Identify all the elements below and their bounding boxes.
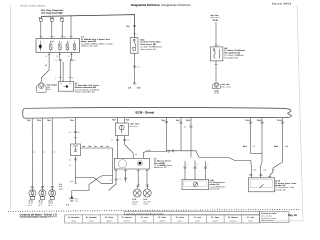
footer info box xyxy=(260,212,290,223)
wires into box1 xyxy=(185,161,206,180)
svg-text:T6/1: T6/1 xyxy=(27,119,31,122)
S/16 oil pressure switch box xyxy=(130,38,138,54)
svg-text:1.0: 1.0 xyxy=(110,179,112,182)
svg-text:1.0: 1.0 xyxy=(111,139,113,142)
wire drop from bus to module A-2 xyxy=(70,16,72,39)
svg-text:T6b: T6b xyxy=(88,145,91,148)
connector G-8 xyxy=(39,16,43,21)
svg-text:T6/2: T6/2 xyxy=(37,119,41,122)
svg-text:2.0: 2.0 xyxy=(69,164,71,167)
svg-text:1: 1 xyxy=(187,163,188,166)
svg-text:cil. 2: cil. 2 xyxy=(38,204,42,207)
wire module to G6 pump left xyxy=(59,52,62,81)
svg-text:G 8: G 8 xyxy=(128,87,131,90)
svg-text:Sist. Diag. Diagnostic: Sist. Diag. Diagnostic xyxy=(41,9,64,12)
box1 pressure sensor xyxy=(182,180,209,190)
valve box side labels xyxy=(130,122,139,127)
ground text xyxy=(59,182,79,207)
wires valve box to pump box xyxy=(116,136,118,159)
long horizontal wire pump run xyxy=(167,151,252,178)
vertical from bus to lower run xyxy=(101,148,113,183)
glow plug 1 xyxy=(29,190,36,200)
svg-text:W 8: W 8 xyxy=(137,87,140,90)
labels above bus xyxy=(82,145,109,148)
band pin wire injector 3 xyxy=(51,118,53,190)
svg-text:Mum Pum: Mum Pum xyxy=(130,125,138,128)
svg-text:2: 2 xyxy=(72,77,73,80)
svg-text:(30-12): (30-12) xyxy=(160,164,166,167)
pump assembly box xyxy=(114,158,149,169)
valve N18 labels xyxy=(143,198,151,205)
solenoid valve N18 xyxy=(143,189,151,197)
module A-2 text block xyxy=(81,36,113,48)
wire module to G6 pump right xyxy=(70,52,71,81)
footer table header xyxy=(125,212,260,215)
svg-text:13: 13 xyxy=(64,36,66,39)
svg-text:colector 007: colector 007 xyxy=(210,188,220,191)
ticks below B1 xyxy=(74,159,77,160)
band pin wire x181 xyxy=(180,118,182,151)
svg-text:1: 1 xyxy=(42,36,43,39)
svg-text:1.0: 1.0 xyxy=(119,178,121,181)
module A-2 box xyxy=(36,39,80,53)
wire 30 to S/6 xyxy=(215,22,217,47)
svg-text:1.0: 1.0 xyxy=(135,153,137,156)
wire G6 pump mid xyxy=(62,62,64,82)
injector ticks above xyxy=(31,187,54,188)
svg-text:0.5: 0.5 xyxy=(184,126,186,129)
svg-text:(Sist. Diagnóstico) 028: (Sist. Diagnóstico) 028 xyxy=(41,12,63,15)
svg-text:12: 12 xyxy=(78,131,80,134)
svg-text:T6/10: T6/10 xyxy=(186,119,191,122)
svg-text:2.0: 2.0 xyxy=(75,182,78,185)
svg-text:T6d: T6d xyxy=(100,145,103,148)
module internal tiny labels xyxy=(43,41,70,44)
injector wire gauge labels xyxy=(33,151,55,154)
heading Sist. Diagnostico xyxy=(41,9,64,15)
ticks on those wires xyxy=(116,140,126,141)
crossing X wires xyxy=(72,175,113,196)
wire module to battery symbol xyxy=(41,52,49,82)
svg-text:T6c: T6c xyxy=(94,145,97,148)
svg-text:bomba combustible 281: bomba combustible 281 xyxy=(75,91,95,94)
svg-text:2.0: 2.0 xyxy=(252,145,255,148)
band pin wire injector 2 xyxy=(41,118,43,190)
band pin wire right 1 xyxy=(250,118,252,154)
page edge bottom right (faint) xyxy=(262,220,303,222)
band pin wire right 3 xyxy=(273,118,283,172)
svg-text:T2: T2 xyxy=(68,55,70,58)
S/16 text block xyxy=(140,38,162,51)
pump wire to valve N2 xyxy=(146,169,148,182)
svg-text:0.5: 0.5 xyxy=(69,158,71,161)
svg-text:press.: press. xyxy=(132,204,137,206)
svg-text:cables y mazos): cables y mazos) xyxy=(261,219,274,222)
svg-text:15 - Preto: 15 - Preto xyxy=(158,216,166,219)
svg-text:30-30: 30-30 xyxy=(213,19,219,22)
band pin wire right 2 xyxy=(261,118,263,162)
module internal element 1 (diode) xyxy=(39,41,42,52)
svg-text:1.5: 1.5 xyxy=(70,180,72,183)
wire T-2a to module xyxy=(51,21,53,38)
junction dot xyxy=(71,196,73,198)
svg-text:30 - Marrom: 30 - Marrom xyxy=(122,216,132,219)
S/16 pin tick xyxy=(133,33,136,35)
svg-text:(Veíc Veíc): (Veíc Veíc) xyxy=(221,85,231,88)
bus wire from diagnostic to S/16 xyxy=(41,15,135,38)
label M6.6 right xyxy=(274,145,289,148)
ticks above box2 xyxy=(249,175,271,177)
svg-text:3: 3 xyxy=(207,163,208,166)
svg-text:B+ Vermelho: B+ Vermelho xyxy=(86,216,97,219)
glow plug 1 labels xyxy=(28,199,33,206)
S/6 text block xyxy=(224,47,245,60)
sensor ground symbol xyxy=(212,82,220,89)
page edge right (faint) xyxy=(297,6,303,221)
G6 fuel pump box xyxy=(58,82,73,92)
terminal 30 label block xyxy=(210,14,220,22)
svg-text:1.0: 1.0 xyxy=(73,59,75,62)
svg-text:G 6: G 6 xyxy=(66,204,69,207)
S/16 wire connector T2b xyxy=(133,26,136,27)
svg-text:M6.6: M6.6 xyxy=(274,145,278,148)
svg-text:15 - Preto: 15 - Preto xyxy=(211,216,219,219)
band pin wire x75 xyxy=(74,118,76,144)
tick on run xyxy=(173,150,174,153)
connector G-7 xyxy=(60,16,64,21)
ECM band box xyxy=(23,107,292,118)
svg-text:calefacc. para 005: calefacc. para 005 xyxy=(81,45,98,48)
svg-text:1: 1 xyxy=(137,33,138,36)
svg-text:ECM - Diesel: ECM - Diesel xyxy=(136,111,155,115)
wires into box2 xyxy=(261,162,273,178)
footer table row xyxy=(65,215,260,223)
svg-text:Versão / Versión: 5901/02: Versão / Versión: 5901/02 xyxy=(20,5,46,8)
tick on wire xyxy=(215,64,218,66)
svg-text:1: 1 xyxy=(55,77,56,80)
svg-text:31 - Azul: 31 - Azul xyxy=(194,216,202,219)
connector tick on S16 ground wire xyxy=(133,66,136,67)
svg-text:2: 2 xyxy=(197,163,198,166)
connector tick on horizontal xyxy=(165,122,169,153)
svg-text:Pág. 26: Pág. 26 xyxy=(288,214,297,217)
svg-text:T2: T2 xyxy=(56,55,58,58)
module internal element 4 xyxy=(66,41,69,52)
ground labels G28 xyxy=(214,89,218,94)
pump wire up right xyxy=(143,118,166,159)
glow plug 3 xyxy=(49,190,56,200)
horizontal label bus from B1 xyxy=(81,147,113,149)
svg-text:(Veíc Veíc): (Veíc Veíc) xyxy=(210,16,220,19)
svg-text:W 28: W 28 xyxy=(214,92,218,95)
svg-text:T6/5: T6/5 xyxy=(112,119,116,122)
svg-text:0.5: 0.5 xyxy=(69,131,71,134)
module bottom pin ticks and labels xyxy=(48,53,73,55)
svg-text:T6/12: T6/12 xyxy=(257,119,262,122)
band pin labels left xyxy=(27,119,51,122)
box2 turbo actuator xyxy=(248,178,274,192)
box2 text block xyxy=(275,180,297,192)
svg-text:15 - Preto: 15 - Preto xyxy=(105,216,113,219)
svg-text:Curso 2002: Curso 2002 xyxy=(272,3,291,6)
svg-text:T6/6: T6/6 xyxy=(126,119,130,122)
svg-text:2.0: 2.0 xyxy=(272,169,274,172)
box1 text block xyxy=(210,179,226,191)
svg-text:T2/1: T2/1 xyxy=(263,169,266,172)
svg-text:7: 7 xyxy=(73,36,74,39)
svg-text:T6/3: T6/3 xyxy=(47,119,51,122)
svg-text:31 - Azul: 31 - Azul xyxy=(247,216,255,219)
battery text block xyxy=(47,84,58,91)
battery / B+ symbol xyxy=(37,82,47,93)
svg-text:T6/9: T6/9 xyxy=(176,119,180,122)
svg-text:filt. gasóleo 001: filt. gasóleo 001 xyxy=(224,56,239,59)
label M6.6 xyxy=(243,145,255,148)
B1 relay box xyxy=(71,144,81,156)
svg-text:B+ Vermelho: B+ Vermelho xyxy=(68,216,79,219)
table cell texts row1 xyxy=(68,216,254,219)
footer dotted separator xyxy=(8,209,299,211)
svg-text:água: água xyxy=(59,187,63,190)
svg-text:30 - Cinza: 30 - Cinza xyxy=(176,216,184,219)
pump bottom pins xyxy=(115,170,149,172)
module internal element 2 xyxy=(49,41,52,52)
S/6 sensor box xyxy=(210,47,223,61)
page edge left (faint) xyxy=(10,6,12,210)
wire S/16 to ground xyxy=(134,53,136,83)
svg-text:1.0: 1.0 xyxy=(55,59,57,62)
wire stub continuing below junction xyxy=(74,178,76,184)
G6 text block xyxy=(75,82,100,94)
small box under band (valve) xyxy=(115,123,128,136)
svg-text:T2/2: T2/2 xyxy=(253,169,256,172)
module internal element 3 xyxy=(59,41,62,52)
svg-text:T6/11: T6/11 xyxy=(245,119,250,122)
svg-text:T6/4: T6/4 xyxy=(70,119,74,122)
ticks above valves xyxy=(137,185,149,186)
band pin wire x191 xyxy=(190,118,192,158)
band pin wire injector 1 xyxy=(31,118,33,190)
module internal element 5 xyxy=(73,41,76,52)
ticks on x75 wire xyxy=(74,132,77,138)
wire G-7 to module xyxy=(61,21,63,38)
svg-text:8: 8 xyxy=(53,36,54,39)
svg-text:cil. 3: cil. 3 xyxy=(48,204,52,207)
svg-text:T6e: T6e xyxy=(106,145,109,148)
glow plug 2 xyxy=(39,190,46,200)
svg-text:1: 1 xyxy=(218,44,219,47)
svg-text:T6a: T6a xyxy=(82,145,85,148)
wire G-8 to module xyxy=(40,21,42,38)
sensor ground text xyxy=(221,83,231,88)
pump wire to valve N1 xyxy=(137,169,138,189)
pump text block xyxy=(154,157,173,169)
svg-text:cil. 1: cil. 1 xyxy=(28,204,32,207)
wire S/6 down xyxy=(215,61,217,81)
svg-text:M6.6: M6.6 xyxy=(243,145,247,148)
pin ticks module top xyxy=(40,36,73,38)
svg-text:1.0: 1.0 xyxy=(45,64,48,67)
pin numbers module top xyxy=(42,36,73,39)
svg-text:T2: T2 xyxy=(45,55,47,58)
svg-text:T6/13: T6/13 xyxy=(277,119,282,122)
svg-text:T6/8: T6/8 xyxy=(161,119,165,122)
svg-text:1.0: 1.0 xyxy=(137,66,139,69)
svg-text:1.0: 1.0 xyxy=(127,139,129,142)
pump bottom wire 2 xyxy=(125,169,127,182)
svg-text:Control del Motor - Diesel 1.7: Control del Motor - Diesel 1.7 l xyxy=(20,216,53,219)
connector T-2a xyxy=(50,16,55,21)
svg-text:interr. presión 087: interr. presión 087 xyxy=(140,48,157,51)
wire below B1 xyxy=(75,156,94,178)
pump bottom wire 1 xyxy=(109,169,117,191)
svg-text:actuador 067: actuador 067 xyxy=(275,188,286,191)
svg-text:31 - Azul: 31 - Azul xyxy=(141,216,149,219)
svg-text:30 - Marrom: 30 - Marrom xyxy=(228,216,238,219)
valve N75 labels xyxy=(132,198,139,205)
svg-text:recirc.: recirc. xyxy=(143,203,148,206)
solenoid valve N75 xyxy=(133,189,141,197)
note labels under run xyxy=(160,162,166,167)
svg-text:Diagramas Elétricos | Diagrama: Diagramas Elétricos | Diagramas Eléctric… xyxy=(131,3,191,7)
ECM band group xyxy=(23,107,292,118)
ground G8 terminal marks xyxy=(133,83,136,84)
link right wires xyxy=(251,153,262,155)
ground chassis bottom xyxy=(69,199,75,202)
connector ticks on pump wires xyxy=(59,60,73,77)
table cell texts row2 xyxy=(71,220,254,223)
glow plug 2 labels xyxy=(38,199,43,206)
glow plug 3 labels xyxy=(48,199,53,206)
pin tick S/6 xyxy=(215,44,218,46)
wires band to valve box xyxy=(116,118,118,123)
